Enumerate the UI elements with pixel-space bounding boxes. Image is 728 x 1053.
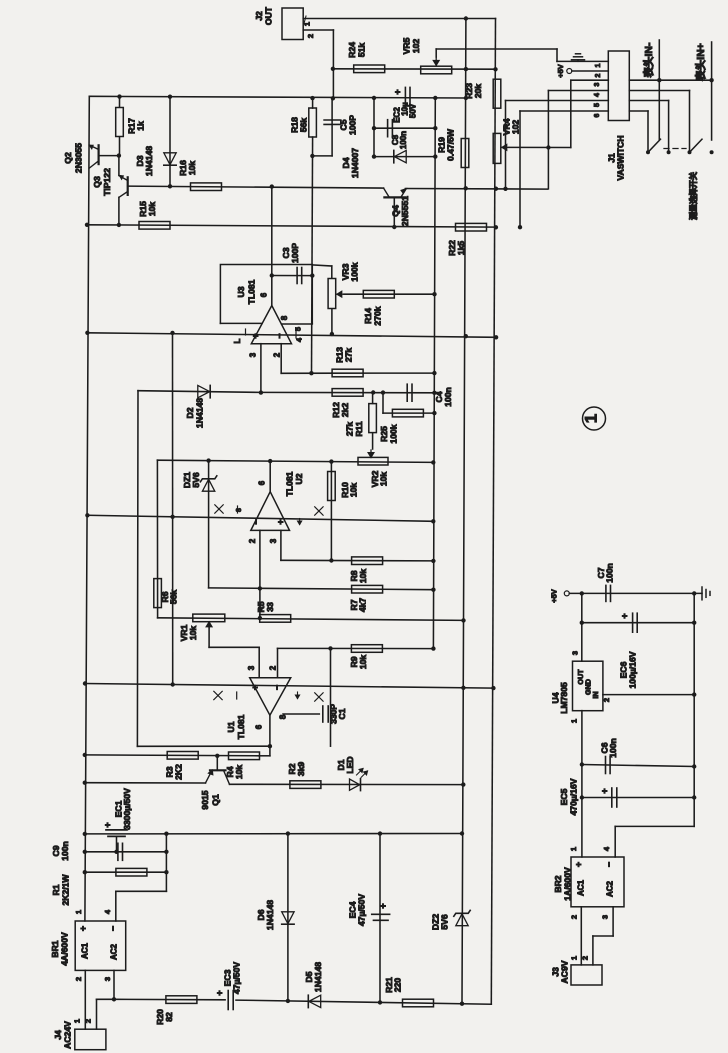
svg-text:AC9V: AC9V	[560, 960, 570, 983]
svg-text:1: 1	[74, 910, 83, 914]
wire U1 output to feedback bottom	[137, 745, 270, 747]
wire DZ1 loop left to R6	[156, 460, 158, 618]
svg-text:33: 33	[265, 602, 275, 612]
svg-text:测量选择开关: 测量选择开关	[688, 172, 698, 220]
capacitor EC1 3300u/50V	[106, 829, 127, 831]
wire J1 pin6	[520, 110, 608, 112]
svg-text:51k: 51k	[357, 43, 367, 58]
svg-text:AC1: AC1	[81, 942, 90, 959]
wire J1 pin5	[506, 100, 609, 102]
diode D6 1N4148	[287, 834, 289, 1001]
svg-text:TIP122: TIP122	[102, 168, 112, 196]
svg-text:10k: 10k	[349, 483, 359, 498]
diode D5 1N4148	[307, 995, 309, 1007]
svg-text:2N3055: 2N3055	[74, 143, 84, 173]
svg-text:1N4148: 1N4148	[144, 146, 154, 176]
svg-text:+: +	[78, 926, 88, 931]
switch lever B	[688, 150, 692, 154]
svg-text:6: 6	[255, 724, 264, 729]
svg-text:100n: 100n	[605, 563, 615, 583]
svg-text:10k: 10k	[147, 202, 157, 217]
svg-text:AC2: AC2	[110, 943, 119, 960]
svg-text:47µ/50V: 47µ/50V	[357, 894, 367, 926]
svg-text:U2: U2	[294, 473, 304, 484]
svg-text:BR1: BR1	[50, 940, 60, 957]
svg-text:50V: 50V	[409, 103, 418, 118]
svg-text:−: −	[604, 862, 614, 867]
wire bottom rail	[236, 1000, 491, 1004]
svg-text:2: 2	[306, 34, 315, 38]
svg-text:3: 3	[601, 915, 610, 919]
svg-text:EC5: EC5	[559, 788, 569, 805]
wire U3 pin3 input	[260, 344, 262, 393]
resistor R13 27k	[332, 372, 435, 374]
wire rail H1 (output sense rail)	[89, 96, 466, 98]
svg-text:D2: D2	[185, 407, 195, 418]
resistor R5 33	[260, 615, 291, 623]
resistor R22 1k5	[456, 223, 487, 231]
svg-text:100k: 100k	[350, 262, 360, 281]
svg-text:C1: C1	[337, 708, 347, 719]
svg-text:1k5: 1k5	[456, 241, 466, 256]
svg-text:27k: 27k	[345, 422, 355, 437]
wire rail H2 right segment	[405, 188, 547, 191]
capacitor C7 100n	[605, 585, 607, 601]
wire meter IN- line	[658, 40, 660, 140]
resistor R15 10k	[87, 225, 496, 227]
svg-text:6: 6	[260, 292, 269, 297]
op-amp U3 TL081	[271, 187, 273, 306]
resistor R9 10k	[351, 645, 382, 653]
wire R6/VR1/R5 chain	[158, 618, 464, 621]
svg-text:R24: R24	[347, 42, 357, 58]
node J2 line / V right	[464, 16, 468, 20]
svg-text:100n: 100n	[443, 387, 453, 407]
svg-text:100P: 100P	[290, 243, 300, 263]
svg-text:10k: 10k	[187, 161, 197, 176]
svg-text:R11: R11	[354, 421, 364, 437]
transistor Q2 2N3055	[85, 96, 89, 921]
svg-text:2: 2	[273, 352, 282, 357]
svg-text:AC1: AC1	[577, 879, 586, 896]
op-amp U2 TL081	[251, 492, 290, 531]
diode D3 1N4148	[169, 96, 171, 186]
resistor R21 220	[403, 999, 434, 1007]
wire to U4 OUT	[581, 593, 583, 661]
svg-text:2: 2	[581, 956, 590, 960]
wire negative loop to BR1 pin4	[165, 834, 167, 892]
wire meter IN+ line	[711, 42, 713, 140]
wire +5V rail	[569, 592, 702, 594]
svg-text:Q4: Q4	[391, 205, 401, 217]
pot VR2 10k	[358, 457, 388, 465]
svg-text:8: 8	[236, 508, 243, 512]
svg-text:2: 2	[595, 73, 602, 77]
svg-text:220: 220	[393, 978, 403, 993]
capacitor C5 100P	[331, 98, 333, 156]
resistor R14 270k	[344, 293, 435, 295]
resistor R25 100k	[382, 393, 384, 414]
switch lever A	[646, 150, 650, 154]
svg-text:4A/600V: 4A/600V	[60, 932, 70, 966]
wire BR2 pin2 to J3	[580, 907, 582, 965]
capacitor EC6 100u/16V	[582, 622, 694, 624]
connector J3 AC9V	[571, 965, 602, 985]
capacitor EC2 10u/50V	[404, 87, 406, 108]
wire Q1 emitter to V1	[85, 782, 206, 784]
svg-text:+: +	[574, 862, 584, 867]
capacitor C8 100n	[374, 127, 435, 129]
op-amp U1 TL081	[250, 678, 291, 716]
svg-text:+: +	[378, 903, 388, 908]
svg-text:1: 1	[303, 22, 312, 26]
wire J4 pin2	[96, 999, 98, 1029]
wire VR1 wiper to U1 pin3	[209, 646, 259, 648]
svg-text:+: +	[215, 990, 225, 995]
bridge BR1 4A/600V	[75, 921, 126, 970]
svg-text:82: 82	[164, 1012, 174, 1022]
svg-text:+5V: +5V	[550, 589, 559, 603]
svg-text:270k: 270k	[373, 306, 383, 325]
wire BR1 pin3	[113, 970, 115, 999]
capacitor EC3 47u/50V	[227, 991, 229, 1010]
svg-text:102: 102	[411, 39, 421, 54]
wire D2 feedback to U1 output	[136, 391, 139, 747]
svg-text:−: −	[251, 519, 261, 524]
wire V right (output bus)	[462, 19, 466, 1002]
svg-text:BR2: BR2	[553, 875, 563, 892]
svg-text:4k7: 4k7	[358, 598, 368, 613]
svg-text:1N4007: 1N4007	[350, 148, 360, 178]
resistor R4 10k	[229, 752, 260, 760]
svg-text:100k: 100k	[389, 424, 399, 443]
svg-text:3: 3	[571, 651, 580, 655]
wire U4 pin1 down	[581, 711, 583, 857]
svg-text:3: 3	[594, 82, 601, 86]
svg-text:100P: 100P	[348, 115, 358, 135]
svg-text:2N5551: 2N5551	[400, 196, 410, 226]
svg-text:1: 1	[569, 847, 578, 851]
wire mid vertical from H3 to H5	[172, 333, 174, 685]
svg-text:R1: R1	[51, 884, 61, 895]
svg-text:20k: 20k	[473, 84, 483, 99]
svg-text:LM7805: LM7805	[559, 682, 569, 714]
wire U2 pin2 to DZ1	[209, 587, 260, 589]
svg-text:470µ/16V: 470µ/16V	[569, 778, 579, 815]
svg-text:Q2: Q2	[63, 152, 73, 164]
wire J1 pin3 to meter IN+	[629, 79, 711, 81]
ground at J1	[577, 60, 579, 62]
svg-text:3: 3	[247, 665, 256, 670]
resistor R6 56k	[154, 579, 162, 608]
svg-text:3: 3	[249, 352, 258, 357]
pot VR5 102	[421, 66, 452, 74]
svg-text:100n: 100n	[399, 131, 408, 149]
svg-text:2: 2	[570, 915, 579, 919]
svg-text:IN: IN	[591, 691, 600, 698]
svg-text:10k: 10k	[358, 655, 368, 670]
svg-text:2: 2	[602, 698, 611, 702]
wire U1 supply rail H5	[85, 684, 494, 689]
svg-text:2K2: 2K2	[174, 764, 184, 780]
resistor R17 1k	[119, 96, 121, 106]
pot VR1 10k	[193, 614, 225, 622]
svg-text:2: 2	[84, 1019, 93, 1023]
svg-text:+: +	[393, 89, 403, 94]
wire EC2/C8 branch	[373, 98, 375, 157]
wire common bus vertical	[433, 98, 435, 649]
svg-text:5V6: 5V6	[440, 914, 450, 930]
svg-text:TL081: TL081	[247, 279, 257, 304]
connector J4 AC24V	[75, 1029, 106, 1050]
wire U3 supply rail H3	[87, 333, 496, 338]
svg-text:9015: 9015	[200, 790, 210, 809]
svg-text:2k2: 2k2	[340, 403, 350, 418]
svg-text:2: 2	[248, 538, 257, 543]
transistor Q4 2N5551	[384, 196, 405, 198]
svg-text:100µ/16V: 100µ/16V	[628, 651, 638, 688]
svg-text:1A/600V: 1A/600V	[563, 867, 573, 901]
svg-text:AC24V: AC24V	[63, 1021, 73, 1049]
resistor R7 4k7	[260, 588, 434, 589]
resistor R10 10k	[330, 462, 332, 561]
svg-text:表头IN+: 表头IN+	[694, 43, 707, 82]
svg-text:Q3: Q3	[92, 176, 102, 188]
wire J1 pin5 to switch	[629, 100, 668, 102]
svg-text:R25: R25	[379, 426, 389, 442]
resistor R18 56k	[312, 98, 314, 108]
resistor R12 2k2	[261, 391, 435, 393]
svg-text:OUT: OUT	[264, 6, 274, 25]
svg-text:1k: 1k	[136, 121, 146, 131]
wire J1 pin6 to switch	[629, 110, 648, 112]
diode D2 1N4148	[138, 391, 261, 393]
svg-text:VR5: VR5	[402, 37, 412, 54]
svg-text:5V6: 5V6	[191, 472, 201, 488]
svg-text:U1: U1	[226, 721, 236, 732]
svg-text:L: L	[233, 338, 242, 343]
wire VR5 wiper to J1 pin1	[436, 48, 557, 50]
LED D1	[360, 779, 362, 791]
svg-text:56k: 56k	[169, 590, 179, 605]
ground symbol	[701, 587, 703, 600]
capacitor C1 330P	[330, 648, 332, 746]
zener DZ2 5V6	[454, 910, 470, 916]
wire J1 pin3 to VR4 wiper	[571, 79, 609, 81]
svg-text:−: −	[108, 926, 118, 931]
wire right chain R23/VR4	[491, 19, 495, 1005]
svg-text:1N4148: 1N4148	[265, 900, 275, 930]
transistor Q1 9015	[216, 756, 218, 771]
svg-text:8: 8	[279, 714, 288, 719]
wire U2 output rail / DZ1 loop top	[157, 460, 433, 462]
pot VR3 100k	[312, 265, 332, 266]
svg-text:1: 1	[570, 719, 579, 723]
svg-text:10k: 10k	[379, 472, 389, 487]
svg-text:6: 6	[594, 113, 601, 117]
resistor R1 2K2/1W	[85, 871, 167, 873]
switch gang dashed link	[664, 148, 686, 150]
resistor R20 82	[114, 998, 225, 1001]
svg-text:Q1: Q1	[211, 794, 221, 806]
wire J1 pin1 ground	[557, 60, 608, 62]
wire BR1 pin2 to J4	[84, 970, 86, 1029]
svg-text:5: 5	[294, 327, 303, 331]
terminal +5V at J1	[567, 69, 572, 74]
terminal +5V supply	[564, 591, 569, 596]
connector J1 VASWITCH	[608, 51, 629, 121]
resistor R24 51k	[333, 68, 496, 70]
svg-text:47µ/50V: 47µ/50V	[232, 962, 242, 994]
resistor R2 3k9	[230, 783, 464, 785]
capacitor EC5 470u/16V	[582, 797, 694, 799]
wire U2 supply rail H4	[87, 515, 433, 521]
diode D4 1N4007	[374, 156, 435, 158]
svg-text:J2: J2	[254, 11, 264, 21]
svg-text:+: +	[103, 822, 113, 827]
svg-text:102: 102	[511, 120, 521, 135]
wire U4 GND pin2	[603, 694, 694, 696]
connector J2 OUT	[282, 8, 303, 40]
svg-text:4: 4	[594, 93, 601, 97]
svg-text:5: 5	[594, 103, 601, 107]
svg-text:+5V: +5V	[556, 64, 565, 78]
bridge BR2 1A/600V	[571, 857, 624, 907]
svg-text:2K2/1W: 2K2/1W	[61, 874, 71, 906]
svg-text:0.47/5W: 0.47/5W	[446, 128, 456, 161]
resistor R16 10k	[128, 186, 384, 188]
svg-text:1N4148: 1N4148	[195, 398, 205, 428]
resistor R8 10k	[352, 557, 383, 565]
svg-text:10k: 10k	[188, 626, 198, 641]
wire U2 pin3 to R8	[280, 530, 282, 560]
wire U3 pin2 input	[280, 344, 282, 374]
svg-text:TL081: TL081	[285, 471, 295, 496]
svg-text:TL081: TL081	[236, 714, 246, 739]
capacitor C6 100n	[582, 765, 694, 767]
svg-text:3: 3	[269, 538, 278, 543]
wire J1 pin4	[548, 90, 608, 92]
wire BR2 pin3 to J3	[612, 907, 614, 936]
svg-text:U3: U3	[236, 286, 246, 297]
svg-text:+: +	[276, 519, 286, 524]
svg-text:10k: 10k	[358, 569, 368, 584]
svg-text:2: 2	[269, 665, 278, 670]
capacitor C9 100n	[85, 851, 167, 853]
svg-text:AC2: AC2	[606, 880, 615, 897]
resistor R19 0.47/5W	[461, 139, 469, 168]
svg-text:27k: 27k	[344, 348, 354, 363]
wire main rail (EC1 top)	[85, 833, 462, 835]
wire J1 pin4 to switch	[629, 90, 689, 92]
capacitor C4 100n	[406, 384, 408, 401]
svg-text:LED: LED	[345, 756, 355, 773]
svg-text:J4: J4	[53, 1030, 63, 1040]
svg-text:3k9: 3k9	[296, 762, 306, 777]
figure number 1	[583, 407, 606, 430]
wire to BR2 pin4	[615, 825, 694, 827]
wire J2 pin2 down	[303, 29, 333, 31]
regulator U4 LM7805	[573, 661, 603, 711]
wire U1 pin2 feedback	[277, 648, 279, 677]
svg-text:100n: 100n	[608, 738, 618, 758]
svg-text:+: +	[620, 613, 630, 618]
svg-text:6: 6	[258, 480, 267, 485]
svg-text:+: +	[600, 788, 610, 793]
svg-text:3: 3	[103, 977, 112, 981]
transistor Q3 TIP122	[127, 177, 129, 195]
svg-text:R14: R14	[363, 308, 373, 324]
capacitor C3 100P	[272, 275, 313, 277]
svg-text:56k: 56k	[299, 118, 309, 133]
resistor R11 27k	[372, 393, 374, 404]
svg-text:1: 1	[582, 414, 601, 423]
resistor R3 2K2	[85, 754, 259, 757]
svg-text:10k: 10k	[234, 765, 244, 780]
svg-text:1: 1	[73, 1019, 82, 1023]
svg-text:表头IN-: 表头IN-	[642, 42, 655, 78]
svg-text:1N4148: 1N4148	[313, 962, 323, 992]
wire pin2/C1/R9 node	[278, 647, 434, 649]
svg-text:2: 2	[74, 977, 83, 981]
capacitor EC4 47u/50V	[379, 834, 381, 1003]
pot VR4 102	[493, 133, 501, 163]
svg-text:1: 1	[570, 956, 579, 960]
svg-text:3300µ/50V: 3300µ/50V	[122, 788, 132, 830]
resistor R23 20k	[493, 79, 501, 108]
svg-text:VASWITCH: VASWITCH	[616, 135, 626, 180]
wire J2 pin1 to right rail	[303, 18, 495, 20]
zener DZ1 5V6	[208, 461, 210, 588]
svg-text:8: 8	[280, 315, 289, 320]
svg-text:1: 1	[595, 63, 602, 67]
wire right vertical of 5V section	[693, 593, 695, 826]
svg-text:100n: 100n	[60, 841, 70, 861]
